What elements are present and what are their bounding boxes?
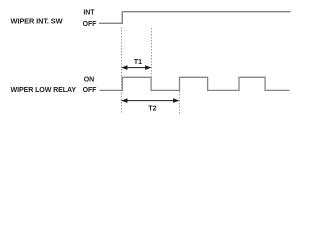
dimension arrow T2 (double headed, pulse period) [121, 98, 179, 103]
node T2 end: dashed marker line at second rising edge (x=179.5) [179, 91, 181, 114]
svg-text:WIPER LOW RELAY: WIPER LOW RELAY [11, 87, 77, 94]
node T1 end: dashed marker line at first falling edge (x=151.5) [151, 28, 153, 77]
wire: WIPER LOW RELAY waveform (pulse train) [100, 77, 290, 90]
wire: WIPER INT. SW waveform (OFF to INT step) [99, 12, 291, 24]
svg-text:OFF: OFF [83, 21, 98, 28]
node T1 start: dashed marker line at first rising edge (x=121.5) [121, 27, 123, 114]
svg-text:ON: ON [84, 77, 94, 84]
dimension arrow T1 (double headed, first pulse width) [121, 65, 151, 70]
svg-text:T2: T2 [148, 106, 156, 113]
svg-text:OFF: OFF [83, 87, 98, 94]
svg-text:T1: T1 [134, 59, 142, 66]
svg-text:INT: INT [83, 10, 95, 17]
svg-text:WIPER INT. SW: WIPER INT. SW [11, 18, 64, 25]
